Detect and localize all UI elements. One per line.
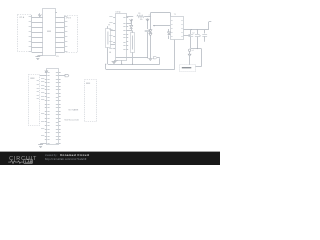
U3 left pins with labels — [109, 17, 115, 49]
fuse F1 (narrow vertical box left of U3) — [106, 29, 111, 48]
svg-text:JP1 A: JP1 A — [19, 16, 25, 19]
diode D2 chain — [148, 16, 152, 60]
svg-text:JP2 B: JP2 B — [66, 18, 72, 20]
wire probe to box — [189, 56, 191, 65]
F1 bottom wire to rail — [108, 47, 112, 64]
label U3 — [116, 12, 121, 14]
label 10k — [140, 19, 143, 21]
scope XSC1 (box with dark trace) — [180, 65, 196, 72]
power VCC arrow (U2 top-left) — [45, 70, 48, 73]
IC U3 — [116, 14, 127, 61]
wire node left of U2 — [40, 75, 47, 77]
wire T1 bottom pin — [174, 40, 176, 70]
label R1 — [138, 13, 140, 15]
footer bar — [0, 152, 220, 165]
power VCC arrow (pin row) — [126, 19, 133, 24]
power VCC arrow (top of U1) — [38, 13, 41, 18]
U2 left pin name smudges — [41, 79, 44, 136]
wire U1 pin to node — [55, 12, 57, 14]
wire T1 left pin — [153, 25, 170, 27]
connector JP3 (left dashed box of MCU) — [29, 75, 40, 126]
label C2 C3 — [192, 32, 201, 37]
JP2 left edge — [64, 16, 66, 53]
CircuitLab logo: CIRCUIT — [9, 156, 37, 162]
wires F1 to U3 — [110, 31, 115, 45]
label U1 — [56, 56, 59, 58]
caps bottom rail — [191, 48, 202, 49]
CircuitLab logo: LAB box — [24, 159, 33, 164]
connector JP1 (left dashed box) — [18, 15, 32, 52]
svg-text:8888: 8888 — [86, 83, 90, 85]
svg-text:8888: 8888 — [47, 31, 51, 33]
F1 top stub + label — [108, 25, 111, 29]
capacitor C4 branch — [202, 30, 207, 42]
svg-text:CIRCUIT: CIRCUIT — [9, 156, 37, 162]
svg-text:C2: C2 — [192, 32, 194, 34]
wire T1 right to caps rail — [183, 29, 208, 30]
diode D1 — [130, 23, 133, 31]
wire corner up right — [209, 22, 212, 30]
ground (below U1) — [35, 56, 43, 60]
U2 right pins — [56, 73, 61, 144]
U2 left pins — [45, 73, 50, 144]
wire R1 to T1 (top run) — [150, 13, 171, 17]
wires JP1 to U1 (8-bit bus) — [32, 18, 43, 53]
JP3 pin smudges — [37, 81, 39, 99]
wires U1 to JP2 — [55, 18, 64, 53]
JP1 right edge — [31, 15, 33, 52]
svg-text:C3: C3 — [199, 36, 201, 38]
ground (under U3) — [112, 60, 118, 64]
crystal X1 (narrow vertical box) — [126, 31, 134, 65]
footer text: created by — [45, 153, 90, 157]
svg-text:10k: 10k — [140, 19, 143, 21]
wire riser to probe box — [195, 49, 201, 67]
connector JP2 (right dashed box) — [65, 16, 78, 53]
power VCC arrow (C1 branch) — [146, 18, 149, 29]
label MCU Microcontroller — [65, 119, 80, 122]
op-amp U1 (IC, top-left) — [43, 9, 56, 56]
capacitor C1 — [145, 31, 151, 58]
JP2 pin smudges — [65, 17, 67, 52]
ground (U2 bottom-left) — [38, 143, 45, 147]
transformer T1 (box) — [171, 14, 184, 39]
node flag n2 + riser — [153, 57, 159, 65]
probe P1 (circle+arrow) — [188, 49, 193, 56]
label NO NAME — [69, 108, 79, 111]
svg-text:T1: T1 — [174, 14, 176, 16]
footer text: url — [45, 158, 87, 161]
diode D4 — [168, 29, 171, 39]
svg-text:R1: R1 — [138, 13, 140, 15]
label node n1 — [149, 14, 151, 16]
label n3 — [191, 29, 192, 31]
lower rail wire — [105, 64, 175, 70]
connector JP4 (right dashed box of MCU) — [85, 80, 97, 122]
svg-text:created by :: created by : — [45, 154, 58, 157]
JP1 pin smudges — [29, 17, 31, 52]
MCU U2 (tall IC) — [47, 69, 59, 145]
svg-text:8888: 8888 — [30, 78, 34, 80]
svg-text:http://circuitlab.com/cmn7zafe: http://circuitlab.com/cmn7zafeh9 — [45, 158, 87, 161]
svg-text:a: a — [191, 29, 192, 31]
svg-text:LAB: LAB — [25, 160, 33, 164]
middle rail wire — [108, 60, 160, 65]
U3 right pins — [123, 18, 128, 50]
svg-text:U3 8p: U3 8p — [116, 12, 121, 14]
svg-text:v1: v1 — [192, 50, 194, 52]
junction node — [154, 25, 155, 26]
svg-text:F1: F1 — [108, 25, 110, 27]
wire T1 right pin 2 — [183, 35, 190, 37]
svg-text:Unnamed Circuit: Unnamed Circuit — [60, 153, 89, 157]
resistor R1 — [126, 15, 150, 18]
node flag OUT (right of U2) — [59, 74, 69, 77]
svg-text:NO NAME: NO NAME — [69, 108, 79, 111]
capacitor C3 — [195, 30, 200, 49]
upper rail wire — [116, 57, 148, 58]
capacitor C2 — [188, 30, 193, 49]
CircuitLab logo: waveform — [8, 160, 23, 163]
